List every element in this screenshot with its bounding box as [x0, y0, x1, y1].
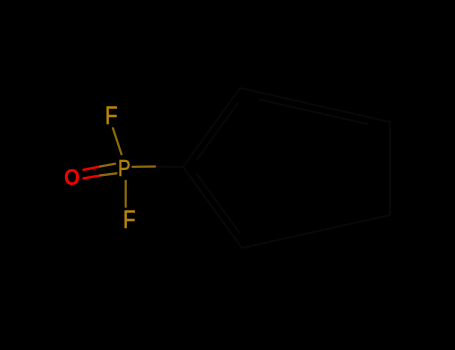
wire: P=O double bond lower line, olive half: [100, 173, 117, 175]
wire: P-F top bond: [113, 128, 122, 154]
wire: P-F bottom bond: [125, 181, 127, 207]
ring: carbon ring outline (near-black): [183, 88, 390, 248]
node F (top fluorine atom label): [105, 102, 118, 131]
wire: P=O double bond lower line, red half: [84, 176, 101, 179]
node P (phosphorus atom label): [118, 155, 131, 182]
wire: aromatic inner line, lower-left edge: [197, 174, 240, 232]
wire: P-C bond, phosphorus half: [133, 165, 156, 168]
wire: P=O double bond upper line, olive half: [100, 164, 115, 167]
node F (bottom fluorine atom label): [123, 206, 136, 235]
node O (oxygen atom label): [64, 164, 80, 191]
wire: aromatic inner line, upper-left edge: [197, 103, 238, 160]
wire: aromatic inner line, top edge: [260, 100, 368, 125]
wire: P=O double bond upper line, red half: [84, 167, 101, 170]
wire: P-C(ring) bond, carbon half (near-black): [155, 166, 183, 169]
